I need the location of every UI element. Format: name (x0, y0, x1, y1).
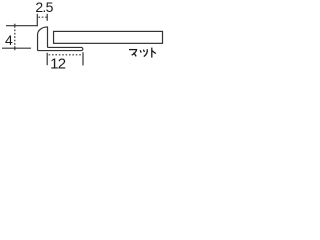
dim 4 bottom dimension line (2, 47, 31, 49)
dim 2.5 left extension bar (36, 14, 38, 26)
dim 12 right extension bar (82, 52, 84, 65)
svg-text:2.5: 2.5 (35, 0, 53, 15)
svg-text:4: 4 (5, 32, 13, 48)
dim 2.5 dotted dimension line (38, 16, 46, 18)
trim profile outline (38, 27, 83, 51)
dim 2.5 right extension bar (46, 14, 48, 21)
mat rectangle (54, 31, 163, 43)
background (0, 0, 170, 75)
dim 12 dotted dimension line (49, 54, 82, 56)
dim 4 top tick (14, 24, 16, 28)
mat label katakana small TSU (140, 49, 147, 56)
mat label katakana TO (152, 48, 156, 58)
svg-text:12: 12 (50, 56, 66, 73)
dim 4 bottom tick (14, 46, 16, 50)
dim 12 left extension bar (46, 53, 48, 65)
mat label katakana MA (129, 50, 137, 57)
dim 4 dotted vertical line (14, 30, 16, 46)
dim 4 top dimension line (6, 25, 38, 27)
